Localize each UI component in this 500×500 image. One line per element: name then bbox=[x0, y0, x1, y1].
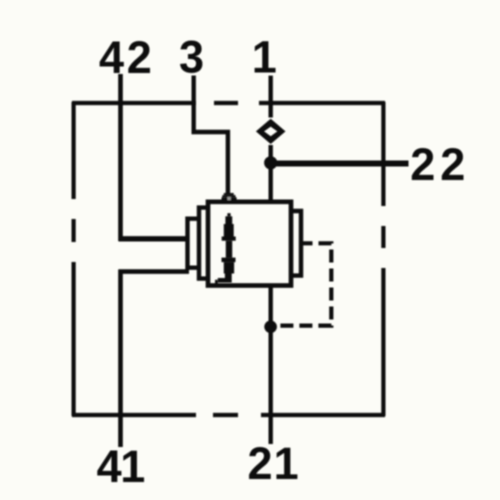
svg-text:3: 3 bbox=[179, 32, 204, 83]
svg-text:41: 41 bbox=[97, 441, 146, 492]
svg-text:21: 21 bbox=[248, 438, 299, 489]
svg-text:1: 1 bbox=[252, 32, 277, 83]
